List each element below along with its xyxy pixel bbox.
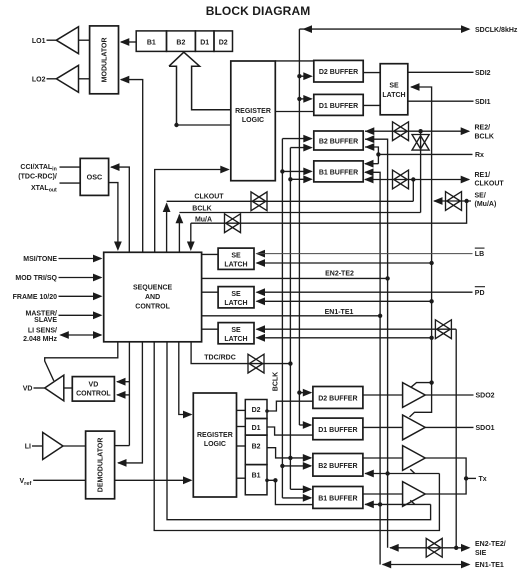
amplifier VD [34, 375, 73, 401]
svg-text:VD: VD [89, 381, 99, 388]
label EN1-TE1 [325, 309, 354, 316]
pin label SDCLK/8kHz [475, 27, 518, 34]
svg-text:B1 BUFFER: B1 BUFFER [318, 496, 357, 503]
wire XTALout to OSC [60, 182, 81, 184]
amplifier LO1 [32, 27, 90, 54]
box VD CONTROL [72, 377, 114, 402]
svg-text:LI: LI [25, 444, 31, 451]
box OSC [80, 158, 108, 195]
svg-text:D1 BUFFER: D1 BUFFER [319, 103, 358, 110]
transmission gate SE [446, 192, 462, 211]
transmission gate TDC/RDC [248, 354, 264, 373]
pin label XTALout [31, 185, 57, 194]
transmission gate EN2-TE2/SIE [426, 538, 442, 557]
wire sequence control to B1 tristate enable [167, 342, 431, 520]
pin label LI [25, 444, 31, 451]
box B1 BUFFER (transmit) [313, 487, 363, 509]
wire SDI2 output [408, 71, 474, 73]
label BCLK [192, 205, 211, 212]
wire Rx to B1 buffer [364, 160, 378, 168]
svg-text:MODULATOR: MODULATOR [101, 37, 108, 82]
wire SE/(Mu/A) line [433, 197, 471, 205]
pin label SDO1 [476, 425, 495, 432]
wire sequence control to SE latch 3 [202, 328, 219, 330]
box SEQUENCE AND CONTROL [104, 252, 202, 341]
register cell D2 (top row) [214, 31, 233, 52]
wire SE to Mu/A line [191, 201, 467, 223]
label Mu/A [195, 216, 212, 223]
svg-text:MOD TRI/SQ: MOD TRI/SQ [15, 275, 57, 282]
tristate driver SDO2 [403, 383, 426, 408]
wire cell B1 to B1 buffer [265, 478, 313, 505]
svg-text:SDI2: SDI2 [475, 70, 491, 77]
svg-text:LI SENS/: LI SENS/ [28, 328, 57, 335]
box DEMODULATOR U2 [86, 431, 115, 499]
svg-text:BCLK: BCLK [272, 372, 279, 391]
label BCLK vertical [272, 372, 279, 391]
wire OSC output to sequence control [109, 183, 122, 251]
svg-text:B1: B1 [252, 472, 261, 479]
wire EN1 enable to B1 buffer [364, 168, 380, 564]
svg-text:SE: SE [231, 291, 241, 298]
box D2 BUFFER (receive) [314, 60, 363, 82]
pin label RE1/CLKOUT [475, 172, 505, 187]
pin label SDI2 [475, 70, 491, 77]
wire B2 transmit input 2 [280, 462, 312, 470]
svg-text:D2 BUFFER: D2 BUFFER [318, 396, 357, 403]
tristate driver SDO1 [403, 415, 426, 440]
svg-text:D2: D2 [252, 407, 261, 414]
wire latch1 input from SE bus [256, 259, 434, 267]
wire EN2-TE2/SIE line [389, 544, 470, 552]
wire Mu/A into sequence control [187, 223, 195, 251]
svg-text:EN2-TE2: EN2-TE2 [325, 270, 354, 277]
svg-text:TDC/RDC: TDC/RDC [204, 355, 236, 362]
svg-text:LATCH: LATCH [382, 92, 405, 99]
svg-text:EN2-TE2/: EN2-TE2/ [475, 541, 506, 548]
pin label MASTER/SLAVE [26, 310, 58, 324]
svg-text:LO2: LO2 [32, 76, 46, 83]
svg-text:BCLK: BCLK [475, 133, 494, 140]
wire SIE vertical to EN2-TE2/SIE pin [455, 329, 457, 548]
pin label VD [23, 386, 33, 393]
svg-text:BLOCK DIAGRAM: BLOCK DIAGRAM [206, 4, 311, 18]
svg-text:PD: PD [475, 290, 485, 297]
box B1 BUFFER (receive) [314, 161, 363, 182]
wire EN2 enable to B2 buffer [365, 135, 388, 548]
wire register logic to cell D2 [237, 409, 246, 411]
wire BCLK line [176, 213, 421, 253]
wire CLKOUT line [163, 201, 414, 252]
svg-text:SDI1: SDI1 [475, 99, 491, 106]
svg-text:AND: AND [145, 294, 160, 301]
wire SE enable to top SE latch [410, 83, 432, 383]
box SE LATCH 3 [218, 323, 254, 344]
box SE LATCH (serial interface) [380, 64, 408, 115]
wire Tx output node [425, 458, 476, 494]
svg-text:D1: D1 [200, 39, 209, 46]
wire SDCLK/8kHz line [299, 25, 470, 76]
wire modulator input 1 from B1 register [120, 38, 136, 46]
svg-text:Mu/A: Mu/A [195, 216, 212, 223]
svg-text:SIE: SIE [475, 550, 487, 557]
transmission gate BCLK vertical [412, 135, 429, 151]
register cell B1 (bottom) [245, 465, 267, 495]
wire B2 buffer input 1 [282, 135, 312, 143]
wire EN1-TE1 line [382, 561, 471, 569]
svg-text:LATCH: LATCH [224, 336, 247, 343]
wire vertical bus B1 data [289, 148, 291, 490]
svg-text:SE: SE [389, 82, 399, 89]
wire LI SENS bidirectional [59, 331, 102, 339]
wire B2 transmit input 1 [288, 454, 312, 462]
wire MSI/TONE input [59, 255, 103, 263]
svg-text:REGISTER: REGISTER [235, 108, 271, 115]
svg-text:EN1-TE1: EN1-TE1 [475, 562, 504, 569]
svg-text:MSI/TONE: MSI/TONE [23, 256, 57, 263]
pin label FRAME 10/20 [13, 294, 57, 301]
wire EN2-TE2 line [202, 276, 390, 280]
svg-text:RE2/: RE2/ [475, 125, 491, 132]
pin label PD overlined [475, 287, 485, 297]
box SE LATCH 2 [218, 287, 254, 308]
wire register logic to cell B2 [237, 445, 246, 447]
wire cell B2 to B2 buffer [267, 448, 290, 458]
wire B2 buffer input 2 [290, 144, 312, 152]
wire FRAME 10/20 input [59, 292, 103, 300]
svg-text:SE: SE [231, 252, 241, 259]
box B2 BUFFER (receive) [314, 131, 363, 150]
wire latch2 input from SE bus [256, 297, 434, 305]
wire sequence control to VD amplifier [45, 342, 118, 381]
transmission gate Mu/A [225, 214, 241, 233]
svg-text:LB: LB [475, 251, 484, 258]
wire VD control input 1 [116, 378, 129, 386]
block arrow register logic to top register row [169, 52, 231, 127]
pin label CCI/XTALin [20, 164, 56, 173]
register cell D1 (bottom) [245, 419, 267, 436]
register cell D1 (top row) [195, 31, 214, 52]
pin label EN2-TE2/SIE [475, 541, 506, 557]
pin label SDI1 [475, 99, 491, 106]
transmission gate CLKOUT [251, 192, 267, 211]
wire PD line into SE latch 2 [256, 288, 473, 296]
pin label EN1-TE1 [475, 562, 504, 569]
wire D2 transmit clock input [297, 389, 312, 397]
wire SDO2 output [425, 394, 473, 396]
wire sequence control to SE latch 1 [202, 253, 219, 255]
wire sequence control to register logic 2 [179, 342, 193, 419]
box B2 BUFFER (transmit) [313, 454, 363, 477]
wire B2 buffer to Tx driver [363, 457, 403, 459]
label CLKOUT [194, 194, 224, 201]
wire D2 buffer to SDO2 driver [363, 394, 403, 396]
wire CLKOUT tap [412, 180, 414, 202]
pin label LB overlined [475, 248, 485, 258]
svg-text:B2: B2 [252, 444, 261, 451]
amplifier LO2 [32, 65, 90, 92]
svg-text:Rx: Rx [475, 152, 484, 159]
wire SIE line into SE latch 3 [256, 325, 457, 333]
pin label Tx [479, 476, 487, 483]
pin label Vref [20, 478, 32, 487]
box D2 BUFFER (transmit) [313, 387, 363, 409]
label EN2-TE2 [325, 270, 354, 277]
wire CCI/XTALin to OSC [60, 166, 81, 168]
register cell B1 (top row) [136, 31, 166, 52]
svg-text:CONTROL: CONTROL [135, 303, 170, 310]
wire B1 buffer input 2 [288, 175, 313, 183]
svg-text:OSC: OSC [87, 173, 103, 182]
wire OSC input from sequence control [110, 163, 129, 252]
box REGISTER LOGIC (bottom) [193, 393, 236, 497]
wire B1 buffer input 1 [280, 168, 313, 176]
wire Rx input to B2 buffer [365, 143, 379, 164]
pin label SDO2 [476, 393, 495, 400]
wire sequence control to register logic [155, 166, 230, 253]
register cell B2 (top row) [167, 31, 196, 52]
svg-text:(TDC-RDC)/: (TDC-RDC)/ [18, 173, 57, 180]
wire EN1-TE1 line [202, 314, 383, 318]
wire Vref line [33, 479, 85, 481]
wire B1 feedback and Tx driver enable [364, 500, 430, 508]
pin label Rx [475, 152, 484, 159]
wire BCLK tap with gate [420, 131, 422, 212]
wire Rx line [378, 153, 472, 155]
box D1 BUFFER (transmit) [313, 418, 363, 440]
svg-text:LO1: LO1 [32, 38, 46, 45]
svg-text:D1: D1 [252, 425, 261, 432]
svg-text:LATCH: LATCH [224, 300, 247, 307]
wire D1 buffer clock input [297, 95, 313, 425]
svg-text:LOGIC: LOGIC [204, 441, 226, 448]
box SE LATCH 1 [218, 248, 254, 269]
svg-text:(Mu/A): (Mu/A) [475, 201, 497, 208]
svg-text:RE1/: RE1/ [475, 172, 491, 179]
wire RE2/BCLK line [365, 127, 470, 135]
wire register logic to D2 buffer [275, 60, 314, 62]
wire cell D2 to D2 buffer [265, 401, 313, 413]
wire LB line into SE latch 1 [256, 250, 473, 258]
transmission gate SIE [435, 320, 451, 339]
svg-text:B1 BUFFER: B1 BUFFER [319, 170, 358, 177]
wire D1 transmit clock input [299, 421, 312, 429]
wire cell D1 to D1 buffer [267, 427, 314, 435]
junction Rx [376, 152, 380, 156]
svg-text:D1 BUFFER: D1 BUFFER [318, 427, 357, 434]
wire TDC/RDC line [191, 342, 292, 366]
svg-text:LOGIC: LOGIC [242, 117, 264, 124]
wire register logic to cell B1 [237, 477, 246, 479]
svg-text:Tx: Tx [479, 476, 487, 483]
svg-text:B2 BUFFER: B2 BUFFER [319, 139, 358, 146]
svg-text:D2 BUFFER: D2 BUFFER [319, 69, 358, 76]
box REGISTER LOGIC (top) [231, 61, 275, 181]
wire D2 buffer clock input [297, 72, 313, 99]
transmission gate RE1 [393, 170, 409, 189]
wire modulator input 2 from sequence control [120, 76, 143, 253]
wire B2 feedback and Tx driver enable [364, 469, 439, 477]
wire D1 buffer to SDO1 driver [363, 426, 403, 428]
svg-text:SEQUENCE: SEQUENCE [133, 284, 173, 291]
pin label (TDC-RDC)/ [18, 173, 57, 180]
wire MOD TRI/SQ input [59, 274, 103, 282]
svg-text:B2 BUFFER: B2 BUFFER [318, 463, 357, 470]
svg-text:CLKOUT: CLKOUT [475, 180, 505, 187]
box MODULATOR U1 [90, 26, 119, 94]
box D1 BUFFER (receive) [314, 94, 363, 115]
svg-text:B1: B1 [147, 39, 156, 46]
svg-text:REGISTER: REGISTER [197, 432, 233, 439]
wire demodulator to register logic [115, 476, 193, 484]
wire RE1/CLKOUT line [364, 176, 470, 184]
wire SDO2 driver enable [411, 380, 434, 387]
wire register logic to D1 buffer [275, 111, 314, 113]
svg-text:VD: VD [23, 386, 33, 393]
svg-text:SDO2: SDO2 [476, 393, 495, 400]
svg-text:CLKOUT: CLKOUT [194, 194, 224, 201]
wire VD control input 2 [116, 391, 129, 399]
transmission gate RE2 [393, 122, 409, 141]
svg-text:SE/: SE/ [475, 193, 486, 200]
wire B1 transmit input 2 [282, 494, 312, 502]
pin label MSI/TONE [23, 256, 57, 263]
wire vertical bus B2 data [281, 139, 283, 498]
wire B1 buffer to Tx driver [363, 493, 403, 495]
amplifier LI [32, 432, 86, 459]
title BLOCK DIAGRAM [206, 4, 311, 18]
wire register logic to cell D1 [237, 426, 246, 428]
svg-text:SLAVE: SLAVE [34, 317, 57, 324]
svg-text:SE: SE [231, 327, 241, 334]
tristate driver B2/Tx [403, 446, 426, 471]
label TDC/RDC [204, 355, 236, 362]
wire sequence control to demodulator [117, 342, 142, 467]
svg-text:LATCH: LATCH [224, 262, 247, 269]
svg-text:DEMODULATOR: DEMODULATOR [97, 438, 104, 493]
svg-text:SDCLK/8kHz: SDCLK/8kHz [475, 27, 518, 34]
pin label LI SENS/2.048 MHz [23, 328, 57, 343]
svg-text:D2: D2 [219, 39, 228, 46]
pin label RE2/BCLK [475, 125, 494, 141]
wire B1 transmit input 1 [290, 485, 312, 493]
svg-text:CONTROL: CONTROL [76, 390, 111, 397]
wire sequence control to SE latch 2 [202, 291, 219, 293]
wire SDI1 output [408, 100, 474, 102]
wire latch3 input from SE bus [256, 334, 434, 342]
wire SDO1 driver enable [410, 383, 432, 417]
register cell B2 (bottom) [245, 435, 267, 465]
svg-text:BCLK: BCLK [192, 205, 211, 212]
wire SDO1 output [425, 426, 473, 428]
svg-text:FRAME 10/20: FRAME 10/20 [13, 294, 57, 301]
wire D2 buffer to SE latch [363, 72, 380, 74]
pin label SE/(Mu/A) [475, 193, 497, 208]
svg-text:2.048 MHz: 2.048 MHz [23, 336, 57, 343]
register cell D2 (bottom) [245, 400, 267, 419]
svg-text:B2: B2 [176, 39, 185, 46]
wire sequence control bus to VD control and demodulator [115, 342, 130, 446]
svg-text:SDO1: SDO1 [476, 425, 495, 432]
pin label MOD TRI/SQ [15, 275, 57, 282]
wire sequence control to B2 tristate enable [154, 342, 439, 531]
wire MASTER/SLAVE input [59, 311, 103, 319]
tristate driver B1/Tx [403, 482, 426, 507]
wire D1 buffer to SE latch [363, 104, 380, 106]
